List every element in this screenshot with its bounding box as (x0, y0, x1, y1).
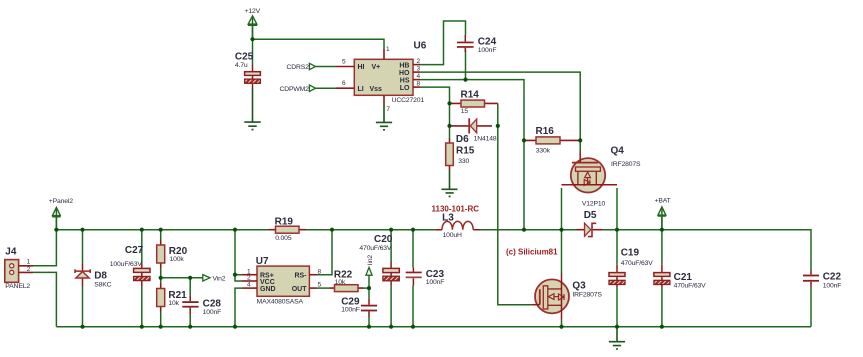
svg-text:4: 4 (247, 282, 251, 289)
svg-text:4.7u: 4.7u (235, 62, 248, 69)
U7 pin RS- (294, 268, 321, 279)
wire C19 top (616, 230, 618, 265)
wire U7 OUT to R22 (317, 287, 330, 289)
terminal CDRS2 (287, 63, 316, 71)
svg-text:+Panel2: +Panel2 (49, 198, 73, 205)
svg-text:100nF: 100nF (478, 47, 497, 54)
wire bottom rail (56, 326, 811, 328)
terminal CDPWM2 (280, 85, 316, 93)
wire R20 top (160, 230, 162, 240)
capacitor C28 (182, 295, 221, 316)
svg-text:6: 6 (342, 80, 346, 87)
svg-text:C28: C28 (203, 298, 222, 309)
svg-text:2: 2 (247, 275, 251, 282)
svg-text:D6: D6 (456, 134, 469, 145)
ground below C25 (244, 89, 260, 130)
wire top rail L3 to D5 (481, 229, 577, 231)
svg-text:C27: C27 (125, 245, 144, 256)
capacitor C27 (110, 245, 150, 286)
wire D8 bottom (82, 287, 84, 327)
transistor Q4 IRF2807S (562, 145, 642, 192)
svg-text:R15: R15 (456, 146, 475, 157)
power +Panel2 (49, 198, 73, 230)
resistor R20 (157, 240, 188, 269)
wire C19 bottom (616, 287, 618, 327)
svg-text:C22: C22 (823, 272, 842, 283)
U7 pin RS+ (242, 268, 274, 279)
capacitor C21 (654, 264, 706, 289)
wire CDRS2 to U6 HI (316, 66, 337, 68)
svg-text:10k: 10k (335, 279, 346, 286)
wire C28 bottom (189, 315, 191, 327)
svg-text:10k: 10k (168, 300, 179, 307)
wire C22 bottom right edge (810, 287, 812, 327)
wire C28 top (189, 278, 191, 296)
inductor L3 (432, 205, 481, 239)
resistor R21 (157, 284, 187, 312)
svg-text:0.005: 0.005 (275, 235, 292, 242)
wire U7 RS- to top rail (317, 230, 332, 275)
wire R22 right to Iin2 node (364, 287, 370, 289)
terminal Vin2 (203, 274, 226, 283)
wire C29 bottom (368, 317, 370, 327)
connector J4 (5, 247, 33, 290)
U6 pin V+ (372, 46, 391, 71)
svg-text:GND: GND (260, 286, 276, 293)
capacitor C29 (341, 296, 377, 317)
svg-text:R16: R16 (536, 126, 555, 137)
svg-text:Q4: Q4 (611, 145, 625, 156)
wire C27 bottom (141, 286, 143, 327)
svg-text:IRF2807S: IRF2807S (611, 161, 641, 168)
svg-text:100nF: 100nF (426, 279, 445, 286)
wire +12V rail to U6 pin1 (253, 25, 385, 49)
ground below R15 (442, 171, 458, 197)
wire Q4 drain to BAT node (616, 188, 618, 230)
svg-text:HO: HO (399, 70, 410, 77)
wire C21 top (661, 230, 663, 265)
svg-text:100nF: 100nF (823, 282, 842, 289)
wire U6 HB to C24 top (420, 21, 466, 65)
U6 pin HI (336, 58, 365, 71)
svg-text:(c) Silicium81: (c) Silicium81 (506, 248, 558, 257)
svg-text:D5: D5 (584, 210, 597, 221)
diode D8 S8KC (75, 264, 112, 288)
svg-text:100k: 100k (170, 256, 185, 263)
svg-text:7: 7 (386, 106, 390, 113)
svg-text:470uF/63V: 470uF/63V (359, 245, 392, 252)
capacitor C22 (803, 271, 841, 290)
power +BAT (655, 198, 671, 230)
svg-text:+12V: +12V (245, 8, 261, 15)
svg-text:2: 2 (27, 266, 31, 273)
svg-text:V+: V+ (372, 64, 381, 71)
resistor R14 (450, 89, 498, 115)
wire U7 RS+ from top rail (235, 230, 242, 275)
capacitor C19 (609, 247, 653, 287)
svg-text:1: 1 (27, 259, 31, 266)
wire +Panel2 stem (55, 217, 57, 230)
wire R21 bottom (160, 312, 162, 327)
svg-text:330: 330 (458, 158, 469, 165)
svg-text:MAX4080SASA: MAX4080SASA (257, 298, 304, 305)
wire C20 bottom (390, 285, 392, 327)
svg-text:R19: R19 (275, 217, 294, 228)
svg-text:RS-: RS- (294, 272, 307, 279)
wire J4 pin1 to top rail (33, 230, 56, 266)
svg-text:PANEL2: PANEL2 (5, 283, 30, 290)
terminal Iin2 (365, 255, 373, 276)
wire Vin2 tap (161, 277, 203, 279)
svg-text:LO: LO (400, 85, 410, 92)
wire Q3 source to bottom rail (561, 320, 563, 327)
wire R20 bottom node Vin2 (160, 268, 162, 284)
svg-text:V12P10: V12P10 (582, 201, 606, 208)
wire Q4 source to switch node and Q3 drain (561, 188, 563, 274)
wire C25 branch (252, 39, 254, 65)
IC U6 UCC27201 body (354, 41, 426, 105)
wire U7 VCC elbow (235, 275, 242, 281)
ground mid bottom (609, 327, 625, 349)
wire C27 top (141, 230, 143, 264)
svg-text:C25: C25 (235, 52, 254, 63)
svg-text:1N4148: 1N4148 (474, 135, 497, 142)
svg-text:330k: 330k (536, 148, 551, 155)
svg-text:IRF2807S: IRF2807S (572, 292, 602, 299)
wire U6 LO down to R15 (420, 87, 450, 138)
U6 pin Vss (370, 86, 391, 113)
svg-text:5: 5 (318, 282, 322, 289)
wire +BAT stem (661, 215, 663, 230)
svg-text:5: 5 (342, 58, 346, 65)
transistor Q3 IRF2807S (531, 274, 602, 320)
U6 pin HO (399, 66, 421, 77)
svg-text:100uH: 100uH (443, 232, 463, 239)
svg-text:8: 8 (318, 268, 322, 275)
ground below U6 (376, 104, 392, 130)
U6 pin LO (400, 81, 421, 92)
diode D5 V12P10 (577, 201, 606, 237)
wire C23 bottom (412, 286, 414, 327)
U7 pin VCC (242, 275, 275, 286)
wire C29 top (368, 288, 370, 299)
IC U7 MAX4080SASA body (256, 256, 310, 305)
svg-text:S8KC: S8KC (94, 281, 111, 288)
svg-text:100nF: 100nF (203, 309, 222, 316)
diode D6 1N4148 (450, 118, 497, 145)
svg-text:LI: LI (358, 86, 364, 93)
svg-text:C24: C24 (478, 37, 497, 48)
svg-text:Q3: Q3 (572, 280, 586, 291)
svg-text:HB: HB (399, 62, 409, 69)
capacitor C20 (359, 234, 399, 285)
power +12V (245, 8, 261, 39)
resistor R16 (524, 126, 580, 154)
svg-text:R14: R14 (461, 89, 480, 100)
svg-text:C21: C21 (674, 272, 693, 283)
svg-text:Vin2: Vin2 (213, 276, 226, 283)
svg-text:C20: C20 (374, 234, 393, 245)
svg-text:Iin2: Iin2 (367, 255, 374, 266)
svg-text:U7: U7 (256, 256, 269, 267)
resistor R19 (269, 217, 307, 242)
svg-text:2: 2 (417, 58, 421, 65)
U6 pin LI (336, 80, 364, 93)
wire top rail D5 to right edge (603, 230, 812, 271)
wire U6 HS to switch node (420, 80, 524, 230)
svg-text:OUT: OUT (292, 286, 308, 293)
resistor R22 (330, 269, 364, 291)
capacitor C24 (457, 35, 497, 54)
svg-text:470uF/63V: 470uF/63V (674, 282, 707, 289)
wire D8 top (82, 230, 84, 264)
svg-text:1130-101-RC: 1130-101-RC (432, 205, 480, 214)
svg-text:8: 8 (417, 81, 421, 88)
U6 pin HS (400, 73, 421, 84)
wire C24 bottom to HS line (465, 50, 467, 80)
svg-text:4: 4 (417, 73, 421, 80)
svg-text:100nF: 100nF (341, 307, 360, 314)
wire C21 bottom (661, 287, 663, 327)
svg-text:HS: HS (400, 77, 410, 84)
wire top rail left segment (56, 229, 268, 231)
U7 pin GND (242, 282, 276, 293)
resistor R15 (446, 139, 475, 171)
wire CDPWM2 to U6 LI (316, 87, 337, 89)
wire J4 pin2 to bottom rail (33, 272, 56, 326)
svg-text:1: 1 (386, 46, 390, 53)
svg-text:Vss: Vss (370, 86, 383, 93)
wire C23 top (412, 230, 414, 268)
capacitor C23 (406, 268, 445, 287)
wire Iin2 stem (368, 275, 370, 288)
wire C20 top (390, 230, 392, 262)
svg-text:L3: L3 (442, 212, 454, 223)
capacitor C25 (235, 52, 261, 89)
svg-text:15: 15 (461, 108, 469, 115)
svg-text:470uF/63V: 470uF/63V (621, 260, 654, 267)
svg-text:D8: D8 (94, 270, 107, 281)
svg-text:C19: C19 (621, 247, 640, 258)
U7 pin OUT (292, 282, 322, 293)
wire Q4 gate vertical (579, 140, 581, 151)
wire U7 GND to bottom rail (235, 288, 242, 327)
U6 pin HB (399, 58, 420, 69)
wire top rail R19 to L3 (306, 229, 435, 231)
svg-text:100uF/63V: 100uF/63V (110, 261, 143, 268)
wire gate line R14 D6 to Q3 gate (498, 103, 531, 304)
svg-text:U6: U6 (414, 41, 427, 52)
svg-text:CDRS2: CDRS2 (287, 64, 310, 71)
wire U6 HO to Q4 gate node (420, 72, 580, 140)
svg-text:UCC27201: UCC27201 (392, 97, 425, 104)
svg-text:HI: HI (358, 64, 365, 71)
svg-text:J4: J4 (5, 247, 17, 258)
svg-text:+BAT: +BAT (655, 198, 671, 205)
svg-text:3: 3 (417, 66, 421, 73)
svg-text:CDPWM2: CDPWM2 (280, 86, 310, 93)
